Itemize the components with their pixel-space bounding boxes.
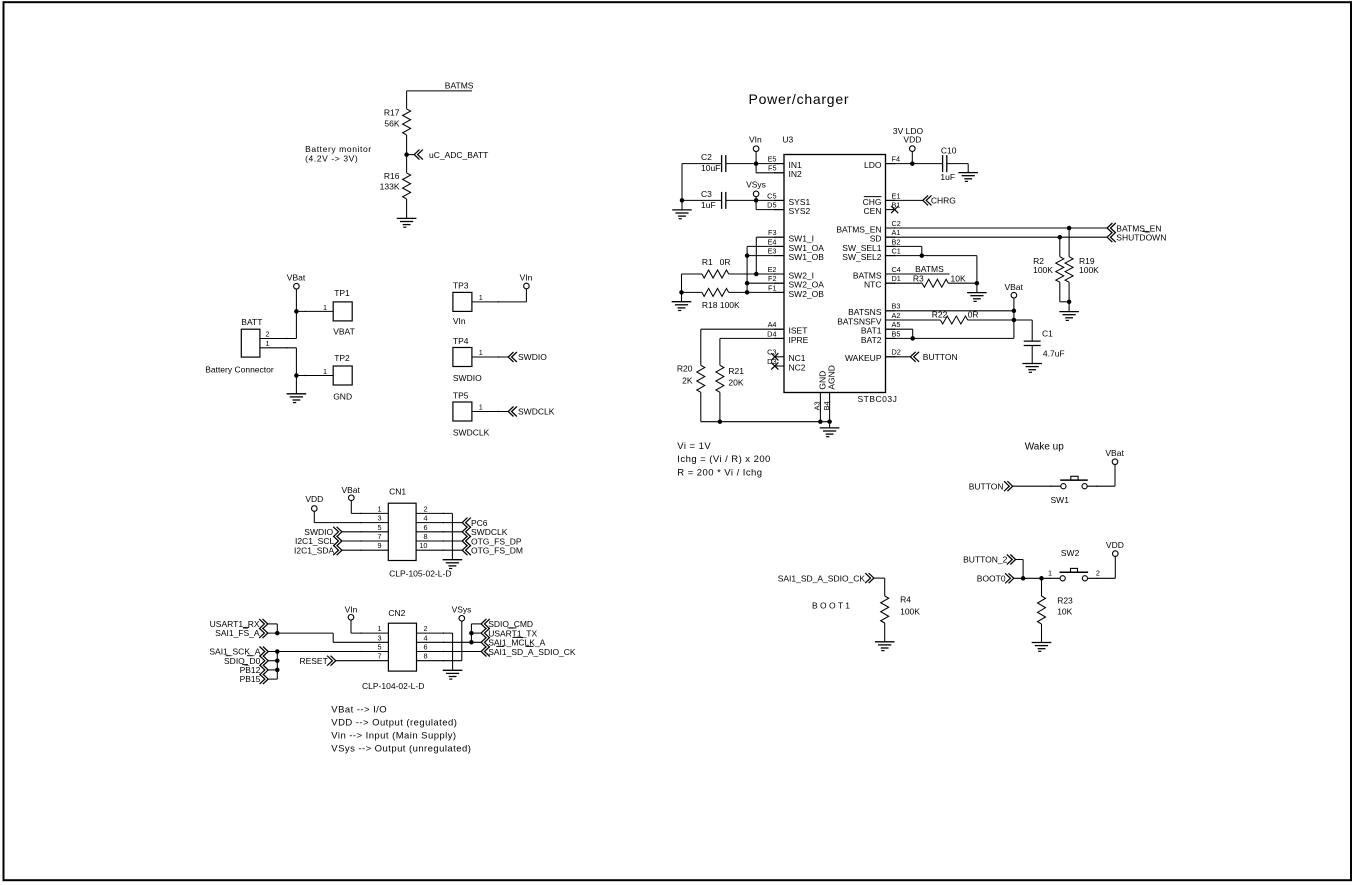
svg-text:SWDIO: SWDIO bbox=[453, 373, 482, 383]
node junction BATSNSFV/VBat bbox=[1012, 318, 1017, 323]
ground (R2/R19) bbox=[1059, 311, 1079, 313]
svg-text:CLP-105-02-L-D: CLP-105-02-L-D bbox=[389, 569, 451, 579]
svg-text:1uF: 1uF bbox=[940, 172, 955, 182]
wire BATMS vertical to R17 bbox=[406, 91, 408, 109]
pin F3 (SW1_I) of U3 bbox=[775, 236, 784, 238]
wire SW1_OB (E3) row bbox=[747, 255, 784, 257]
pin 5 of CN1 bbox=[342, 531, 388, 533]
svg-text:1: 1 bbox=[323, 303, 327, 312]
svg-text:TP5: TP5 bbox=[453, 390, 469, 400]
port SWDIO bbox=[508, 352, 513, 362]
node junction R2/R19 ground bbox=[1067, 300, 1072, 305]
node junction SW_SEL1/SW_SEL2 bbox=[920, 253, 925, 258]
node junction VSys/SYS1 bbox=[754, 198, 759, 203]
wire USART1_RX to junction bbox=[268, 623, 278, 625]
svg-text:WAKEUP: WAKEUP bbox=[845, 353, 882, 363]
wire SAI1_FS_A to pin3 bbox=[268, 632, 333, 634]
ground (C2/C3) bbox=[672, 209, 692, 211]
svg-text:I2C1_SDA: I2C1_SDA bbox=[294, 545, 334, 555]
svg-text:10K: 10K bbox=[1057, 607, 1072, 617]
node junction TP2/GND bbox=[294, 373, 299, 378]
port SHUTDOWN bbox=[1107, 232, 1112, 242]
svg-text:7: 7 bbox=[377, 532, 381, 541]
node junction F3/E2 bbox=[754, 272, 759, 277]
node junction R1/R18 ground bbox=[679, 290, 684, 295]
switch SW1 bbox=[1061, 484, 1066, 489]
svg-text:1: 1 bbox=[266, 339, 270, 348]
svg-text:Power/charger: Power/charger bbox=[749, 91, 850, 107]
capacitor C10 1uF bbox=[942, 155, 944, 172]
svg-text:VBat: VBat bbox=[1004, 282, 1023, 292]
svg-text:BATMS: BATMS bbox=[445, 81, 474, 91]
svg-text:BAT2: BAT2 bbox=[861, 335, 882, 345]
pin B4 (AGND) of U3 bottom bbox=[829, 393, 831, 422]
overlines on SAI1_SD_A_SDIO_CK bbox=[496, 645, 504, 647]
wire NTC row to R3 bbox=[886, 282, 923, 284]
power flag VDD (SW2) bbox=[1113, 551, 1119, 557]
svg-text:3: 3 bbox=[377, 633, 381, 642]
wire SW2_OA (F2) row bbox=[747, 282, 784, 284]
svg-text:100K: 100K bbox=[900, 606, 920, 616]
wire R2 bottom to R19 bottom bbox=[1060, 301, 1069, 303]
svg-text:TP1: TP1 bbox=[334, 288, 350, 298]
wire BATSNS row bbox=[886, 310, 1014, 312]
svg-text:SYS2: SYS2 bbox=[789, 206, 811, 216]
capacitor C3 bbox=[721, 192, 723, 209]
wire SW1_OA (E4) down bbox=[747, 245, 784, 247]
pin 8 of CN1 to OTG_FS_DP bbox=[416, 540, 462, 542]
svg-text:VIn: VIn bbox=[520, 273, 533, 283]
svg-text:U3: U3 bbox=[782, 135, 793, 145]
wire BUTTON to SW1 bbox=[1013, 485, 1061, 487]
svg-text:B5: B5 bbox=[892, 329, 901, 338]
svg-text:1: 1 bbox=[377, 624, 381, 633]
wire IPRE (D4) to R21 bbox=[720, 337, 784, 339]
svg-text:A1: A1 bbox=[892, 228, 901, 237]
pin 2 of CN1 to ground bbox=[416, 512, 452, 514]
svg-text:1: 1 bbox=[1048, 568, 1052, 577]
wire SW2 to VDD bbox=[1088, 577, 1116, 579]
svg-text:TP4: TP4 bbox=[453, 336, 469, 346]
svg-text:R18 100K: R18 100K bbox=[702, 300, 740, 310]
svg-text:8: 8 bbox=[423, 532, 427, 541]
svg-text:E1: E1 bbox=[892, 191, 901, 200]
wire IN2 to VIn junction bbox=[756, 172, 784, 174]
svg-text:100K: 100K bbox=[1079, 265, 1099, 275]
pin B3 (BATSNS) of U3 bbox=[886, 310, 895, 312]
wire C2 left vertical bbox=[681, 164, 683, 201]
svg-text:C1: C1 bbox=[892, 247, 901, 256]
node junction A3/rail bbox=[818, 419, 823, 424]
pin F4 (LDO) of U3 bbox=[886, 163, 895, 165]
svg-text:R16: R16 bbox=[384, 171, 400, 181]
svg-text:VSys: VSys bbox=[452, 605, 472, 615]
svg-text:C4: C4 bbox=[892, 265, 901, 274]
svg-text:2K: 2K bbox=[682, 376, 693, 386]
svg-text:uC_ADC_BATT: uC_ADC_BATT bbox=[429, 150, 488, 160]
wire IN1 row bbox=[682, 163, 722, 165]
svg-text:2: 2 bbox=[266, 330, 270, 339]
wire to ground below R19 bbox=[1068, 302, 1070, 312]
power flag VBat (SW1) bbox=[1112, 459, 1118, 465]
svg-text:A5: A5 bbox=[892, 320, 901, 329]
wire SW1 to VBat bbox=[1087, 485, 1115, 487]
wire RESET to pin7 bbox=[336, 660, 389, 662]
pin E1 (CHG) of U3 bbox=[886, 199, 895, 201]
wire R20 to bottom rail bbox=[700, 392, 702, 421]
svg-text:F2: F2 bbox=[768, 274, 777, 283]
node junction F2 bbox=[745, 281, 750, 286]
svg-text:10: 10 bbox=[419, 541, 427, 550]
pin D2 (WAKEUP) of U3 bbox=[886, 356, 895, 358]
pin F5 (IN2) of U3 bbox=[775, 172, 784, 174]
wire bottom ground rail bbox=[701, 421, 830, 423]
svg-text:CEN: CEN bbox=[864, 206, 882, 216]
svg-text:VBat: VBat bbox=[1105, 448, 1124, 458]
svg-text:IPRE: IPRE bbox=[789, 335, 809, 345]
wire SAI1_SCK_A to pin5 bbox=[268, 651, 388, 653]
svg-text:56K: 56K bbox=[384, 118, 399, 128]
node junction USART1_RX/SAI1_FS_A bbox=[275, 631, 280, 636]
pin D3 (NC2) of U3 bbox=[775, 365, 784, 367]
node junction C3 left bbox=[680, 198, 685, 203]
svg-text:GND: GND bbox=[333, 391, 352, 401]
wire R18 left bbox=[682, 291, 702, 293]
wire CHG to CHRG port bbox=[886, 199, 923, 201]
node junction SAI1_SCK_A vertical bbox=[275, 649, 280, 654]
node junction uC_ADC_BATT bbox=[404, 152, 409, 157]
pin C5 (SYS1) of U3 bbox=[775, 199, 784, 201]
svg-text:C2: C2 bbox=[892, 219, 901, 228]
wire BAT2 row to VBat bbox=[886, 337, 1014, 339]
port SAI1_MCLK_A bbox=[481, 637, 486, 647]
pin E2 (SW2_I) of U3 bbox=[775, 273, 784, 275]
svg-text:NTC: NTC bbox=[864, 280, 881, 290]
svg-text:SWDCLK: SWDCLK bbox=[518, 407, 555, 417]
pin 2 of CN2 to ground bbox=[417, 632, 453, 634]
svg-text:BATMS: BATMS bbox=[915, 264, 944, 274]
svg-text:A4: A4 bbox=[768, 320, 777, 329]
svg-text:D3: D3 bbox=[767, 357, 776, 366]
svg-text:C3: C3 bbox=[701, 189, 712, 199]
pin F1 (SW2_OB) of U3 bbox=[775, 291, 784, 293]
resistor R17 bbox=[403, 109, 411, 135]
pin D4 (IPRE) of U3 bbox=[775, 337, 784, 339]
svg-text:BUTTON: BUTTON bbox=[969, 481, 1004, 491]
ground (CN2 pin2) bbox=[443, 669, 463, 671]
svg-text:E2: E2 bbox=[768, 265, 777, 274]
node junction BATMS_EN/R19 bbox=[1067, 226, 1072, 231]
svg-text:LDO: LDO bbox=[864, 160, 882, 170]
wire pin1 down to TP2 row bbox=[295, 348, 297, 376]
wire BATMS horizontal bbox=[407, 90, 472, 92]
svg-text:VBat --> I/O: VBat --> I/O bbox=[331, 705, 387, 716]
svg-text:VDD: VDD bbox=[305, 494, 323, 504]
svg-text:E5: E5 bbox=[768, 155, 777, 164]
wire BATMS_EN row bbox=[886, 227, 1108, 229]
port USART1_TX bbox=[481, 628, 486, 638]
ground (CN1 pin2) bbox=[443, 559, 463, 561]
wire SW1_I (F3) down to SW2_I bbox=[756, 236, 784, 238]
svg-text:SW_SEL2: SW_SEL2 bbox=[842, 252, 881, 262]
wire vertical E3 to F1 bbox=[746, 256, 748, 293]
ground (R4) bbox=[875, 641, 895, 643]
svg-text:4: 4 bbox=[423, 514, 427, 523]
resistor R23 10K bbox=[1041, 578, 1043, 596]
svg-text:Vi = 1V: Vi = 1V bbox=[677, 441, 711, 452]
wire R3 to junction bbox=[948, 282, 977, 284]
svg-text:R20: R20 bbox=[677, 364, 693, 374]
svg-text:NC2: NC2 bbox=[789, 362, 806, 372]
svg-text:10uF: 10uF bbox=[701, 163, 720, 173]
pin 4 of CN1 to PC6 bbox=[416, 522, 462, 524]
ground (battery monitor) bbox=[397, 217, 417, 219]
svg-text:C2: C2 bbox=[701, 152, 712, 162]
ground (R23) bbox=[1032, 642, 1052, 644]
svg-text:E4: E4 bbox=[768, 237, 777, 246]
svg-text:VBAT: VBAT bbox=[333, 326, 355, 336]
svg-text:RESET: RESET bbox=[299, 656, 327, 666]
svg-text:R17: R17 bbox=[384, 108, 400, 118]
svg-text:1: 1 bbox=[479, 403, 483, 412]
node junction SHUTDOWN/R2 bbox=[1058, 235, 1063, 240]
pin C3 (NC1) of U3 bbox=[775, 356, 784, 358]
svg-text:STBC03J: STBC03J bbox=[858, 394, 898, 404]
node junction TP1/VBat bbox=[294, 309, 299, 314]
no-connect X on NC1 pin bbox=[771, 353, 778, 360]
wire SD/SHUTDOWN row bbox=[886, 236, 1108, 238]
wire VBat vertical bbox=[295, 289, 297, 339]
svg-text:CN1: CN1 bbox=[389, 487, 406, 497]
svg-text:SW2_OB: SW2_OB bbox=[789, 289, 825, 299]
svg-text:SW1: SW1 bbox=[1051, 495, 1070, 505]
resistor R3 10K bbox=[922, 279, 948, 287]
svg-text:AGND: AGND bbox=[827, 365, 837, 390]
svg-text:R1: R1 bbox=[702, 257, 713, 267]
svg-text:133K: 133K bbox=[380, 182, 400, 192]
pin B2 (SW_SEL1) of U3 bbox=[886, 245, 895, 247]
wire to R4 bbox=[874, 577, 885, 579]
wire to ground below R3 bbox=[976, 283, 978, 292]
wire BAT1 down to BAT2 bbox=[886, 328, 913, 330]
node junction R23 bbox=[1039, 576, 1044, 581]
svg-text:5: 5 bbox=[377, 523, 381, 532]
svg-text:VSys --> Output (unregulated): VSys --> Output (unregulated) bbox=[331, 743, 471, 754]
svg-text:IN2: IN2 bbox=[789, 169, 803, 179]
svg-text:3: 3 bbox=[377, 514, 381, 523]
svg-text:OTG_FS_DM: OTG_FS_DM bbox=[471, 546, 523, 556]
svg-text:B3: B3 bbox=[892, 302, 901, 311]
pin E4 (SW1_OA) of U3 bbox=[775, 245, 784, 247]
port SDIO_CMD bbox=[481, 619, 486, 629]
port BATMS_EN bbox=[1107, 223, 1112, 233]
svg-text:CHRG: CHRG bbox=[931, 196, 956, 206]
node junction BUTTON_2/BOOT0 bbox=[1021, 576, 1026, 581]
overline on MCLK CLK bbox=[512, 636, 523, 638]
svg-text:6: 6 bbox=[423, 643, 427, 652]
wire R16 to ground bbox=[406, 199, 408, 219]
svg-text:9: 9 bbox=[377, 541, 381, 550]
pin E3 (SW1_OB) of U3 bbox=[775, 255, 784, 257]
svg-text:Vin --> Input (Main Supply): Vin --> Input (Main Supply) bbox=[331, 730, 456, 741]
svg-text:VDD: VDD bbox=[903, 135, 921, 145]
pin 7 of CN1 bbox=[342, 540, 388, 542]
node junction LDO/VDD bbox=[910, 161, 915, 166]
svg-text:D2: D2 bbox=[892, 348, 901, 357]
wire junction to TP1 bbox=[296, 310, 333, 312]
svg-text:SW1_OB: SW1_OB bbox=[789, 252, 825, 262]
wire SW_SEL1 down to SW_SEL2 bbox=[886, 245, 922, 247]
resistor R21 20K bbox=[716, 365, 724, 392]
svg-text:B4: B4 bbox=[822, 401, 831, 410]
pin C1 (SW_SEL2) of U3 bbox=[886, 255, 895, 257]
svg-text:E3: E3 bbox=[768, 247, 777, 256]
wire BOOT0 to SW2 bbox=[1014, 577, 1060, 579]
svg-text:VIn: VIn bbox=[749, 135, 762, 145]
wire C1 to ground bbox=[1031, 346, 1033, 364]
wire to ground below C3 bbox=[681, 200, 683, 210]
svg-text:CLP-104-02-L-D: CLP-104-02-L-D bbox=[362, 681, 424, 691]
svg-text:100K: 100K bbox=[1033, 265, 1053, 275]
pin B1 (CEN) of U3 bbox=[886, 209, 895, 211]
svg-text:TP3: TP3 bbox=[453, 280, 469, 290]
svg-text:C10: C10 bbox=[941, 145, 957, 155]
resistor R4 100K bbox=[881, 596, 889, 623]
pin 4 of CN2 to SAI1_MCLK_A bbox=[417, 641, 482, 643]
svg-text:VIn: VIn bbox=[345, 605, 358, 615]
overline on SAI1_FS_A S bbox=[243, 626, 249, 628]
svg-text:D1: D1 bbox=[892, 274, 901, 283]
node junction R21/rail bbox=[718, 419, 723, 424]
resistor R2 100K bbox=[1059, 237, 1061, 257]
svg-text:0R: 0R bbox=[720, 257, 731, 267]
wire SDIO_CMD to junction bbox=[471, 623, 481, 625]
pin D1 (NTC) of U3 bbox=[886, 282, 895, 284]
pin 8 of CN2 to VSys bbox=[417, 660, 462, 662]
wire TP4 to SWDIO port bbox=[472, 356, 508, 358]
svg-text:C3: C3 bbox=[767, 348, 776, 357]
wire SW2_I (E2) row with R1 bbox=[729, 273, 784, 275]
wire R21 to bottom rail bbox=[719, 392, 721, 421]
resistor R18 100K bbox=[702, 288, 729, 296]
svg-text:SHUTDOWN: SHUTDOWN bbox=[1116, 233, 1166, 243]
svg-text:1: 1 bbox=[479, 348, 483, 357]
svg-text:TP2: TP2 bbox=[334, 353, 350, 363]
pin 10 of CN1 to OTG_FS_DM bbox=[416, 549, 462, 551]
svg-text:BUTTON_2: BUTTON_2 bbox=[963, 555, 1008, 565]
svg-text:VBat: VBat bbox=[341, 485, 360, 495]
ground (U3 GND rail) bbox=[829, 422, 831, 428]
svg-text:B2: B2 bbox=[892, 237, 901, 246]
svg-text:20K: 20K bbox=[728, 378, 743, 388]
overline on SHUTDOWN O bbox=[1143, 230, 1150, 232]
wire BATMS net stub bbox=[886, 273, 950, 275]
node junction SAI1_MCLK_A bbox=[469, 640, 474, 645]
svg-text:R4: R4 bbox=[900, 595, 911, 605]
svg-text:SWDIO: SWDIO bbox=[518, 352, 547, 362]
svg-text:4: 4 bbox=[423, 633, 427, 642]
wire WAKEUP to BUTTON port bbox=[886, 356, 911, 358]
node junction B4/rail bbox=[827, 419, 832, 424]
pin A5 (BAT1) of U3 bbox=[886, 328, 895, 330]
pin A1 (SD) of U3 bbox=[886, 236, 895, 238]
overline on CHG pin name bbox=[864, 196, 882, 198]
pin 6 of CN2 to SAI1_SD_A_SDIO_CK bbox=[417, 651, 482, 653]
svg-text:SAI1_FS_A: SAI1_FS_A bbox=[215, 628, 260, 638]
svg-text:6: 6 bbox=[423, 523, 427, 532]
port CHRG bbox=[923, 195, 928, 205]
pin A2 (BATSNSFV) of U3 bbox=[886, 319, 895, 321]
port uC_ADC_BATT bbox=[414, 150, 419, 160]
ground (C1) bbox=[1022, 363, 1042, 365]
svg-text:VBat: VBat bbox=[287, 273, 306, 283]
svg-text:Ichg = (Vi / R) x 200: Ichg = (Vi / R) x 200 bbox=[677, 454, 771, 465]
ground (R1/R18) bbox=[672, 301, 692, 303]
svg-text:1: 1 bbox=[377, 504, 381, 513]
svg-text:F4: F4 bbox=[892, 155, 901, 164]
svg-text:R22: R22 bbox=[932, 309, 948, 319]
svg-text:SW2: SW2 bbox=[1061, 548, 1080, 558]
capacitor C2 bbox=[721, 155, 723, 172]
svg-text:B O O T 1: B O O T 1 bbox=[812, 601, 850, 611]
svg-text:SAI1_SD_A_SDIO_CK: SAI1_SD_A_SDIO_CK bbox=[488, 647, 576, 657]
wire ISET (A4) to R20 bbox=[701, 328, 784, 330]
svg-text:Wake up: Wake up bbox=[1025, 441, 1065, 452]
resistor R20 2K bbox=[697, 365, 705, 392]
port BUTTON (WAKEUP) bbox=[910, 352, 915, 362]
svg-text:VIn: VIn bbox=[453, 316, 466, 326]
wire TP3 to VIn bbox=[472, 301, 527, 303]
no-connect X on NC2 pin bbox=[771, 362, 778, 369]
svg-text:A3: A3 bbox=[813, 401, 822, 410]
pin E5 (IN1) of U3 bbox=[775, 163, 784, 165]
pin 3 of CN1 bbox=[314, 522, 388, 524]
svg-text:R = 200 * Vi / Ichg: R = 200 * Vi / Ichg bbox=[677, 467, 762, 478]
svg-text:4.7uF: 4.7uF bbox=[1043, 349, 1065, 359]
svg-text:1: 1 bbox=[323, 367, 327, 376]
node junction BATSNS/VBat bbox=[1012, 309, 1017, 314]
node junction PB12 bbox=[275, 668, 280, 673]
svg-text:1: 1 bbox=[479, 293, 483, 302]
svg-text:PB15: PB15 bbox=[240, 674, 261, 684]
power flag VIn (TP3) bbox=[524, 283, 530, 289]
svg-text:7: 7 bbox=[377, 652, 381, 661]
wire junction to TP2 bbox=[296, 375, 333, 377]
svg-text:2: 2 bbox=[423, 624, 427, 633]
node junction F1 bbox=[745, 290, 750, 295]
wire BATSNSFV row with R22 bbox=[886, 319, 941, 321]
wire junction to chevron bbox=[407, 154, 415, 156]
svg-text:A2: A2 bbox=[892, 311, 901, 320]
svg-text:8: 8 bbox=[423, 652, 427, 661]
overline on SDIO_D0 S and D bbox=[226, 655, 231, 657]
svg-text:VSys: VSys bbox=[746, 179, 766, 189]
wire to ground below R18 bbox=[681, 292, 683, 301]
svg-text:5: 5 bbox=[377, 643, 381, 652]
wire BATSNSFV to C1 bbox=[1014, 319, 1032, 321]
svg-text:0R: 0R bbox=[968, 309, 979, 319]
wire junction to ground bbox=[295, 376, 297, 394]
op-amp U3 body (STBC03J charger IC) bbox=[784, 155, 886, 393]
node junction BAT1/BAT2 bbox=[910, 336, 915, 341]
pin C4 (BATMS) of U3 bbox=[886, 273, 895, 275]
wire BUTTON_2 to junction bbox=[1016, 559, 1024, 561]
resistor R19 100K bbox=[1068, 228, 1070, 257]
node junction SDIO_D0 bbox=[275, 658, 280, 663]
wire TP5 to SWDCLK port bbox=[472, 411, 508, 413]
ground (battery connector) bbox=[287, 393, 307, 395]
svg-text:SWDCLK: SWDCLK bbox=[453, 428, 490, 438]
